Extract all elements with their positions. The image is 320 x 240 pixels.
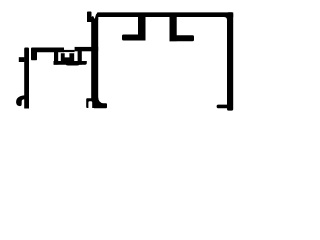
V notch filler under top wall left end bbox=[91, 13, 98, 20]
left clamp bottom hook bbox=[16, 95, 25, 106]
main wall body bbox=[87, 17, 98, 108]
arm tooth T1 bbox=[31, 52, 37, 60]
hook 1 lip bbox=[122, 35, 146, 41]
right wall bbox=[227, 12, 233, 110]
left clamp stem bbox=[24, 48, 29, 109]
white notch in bottom-left flange bbox=[88, 101, 92, 108]
hook 2 vertical bbox=[170, 17, 177, 41]
arm top bar B bbox=[75, 47, 99, 51]
arm tooth T2 (full-height divider) bbox=[54, 52, 58, 65]
left clamp nub bbox=[19, 57, 25, 62]
right bottom foot stub bbox=[217, 105, 227, 109]
bottom-left flange of main wall bbox=[86, 98, 92, 108]
arm tooth T3 (full-height divider) bbox=[78, 51, 82, 65]
arm bottom wall bbox=[54, 61, 87, 65]
arm top bar A bbox=[31, 48, 64, 53]
arm center block (bone-shaped clip) bbox=[61, 53, 74, 64]
hook 1 vertical bbox=[138, 17, 146, 41]
aluminum profile cross-section drawing bbox=[0, 0, 250, 125]
main wall top prong bbox=[87, 12, 92, 23]
top wall bbox=[97, 12, 233, 17]
arm thin web bbox=[64, 50, 75, 52]
hook 2 lip bbox=[170, 35, 195, 41]
white V notch at top-left of main profile bbox=[92, 10, 97, 20]
bottom-left right foot with fillet bbox=[94, 98, 107, 109]
right wall inner corner fillet bbox=[224, 17, 227, 20]
